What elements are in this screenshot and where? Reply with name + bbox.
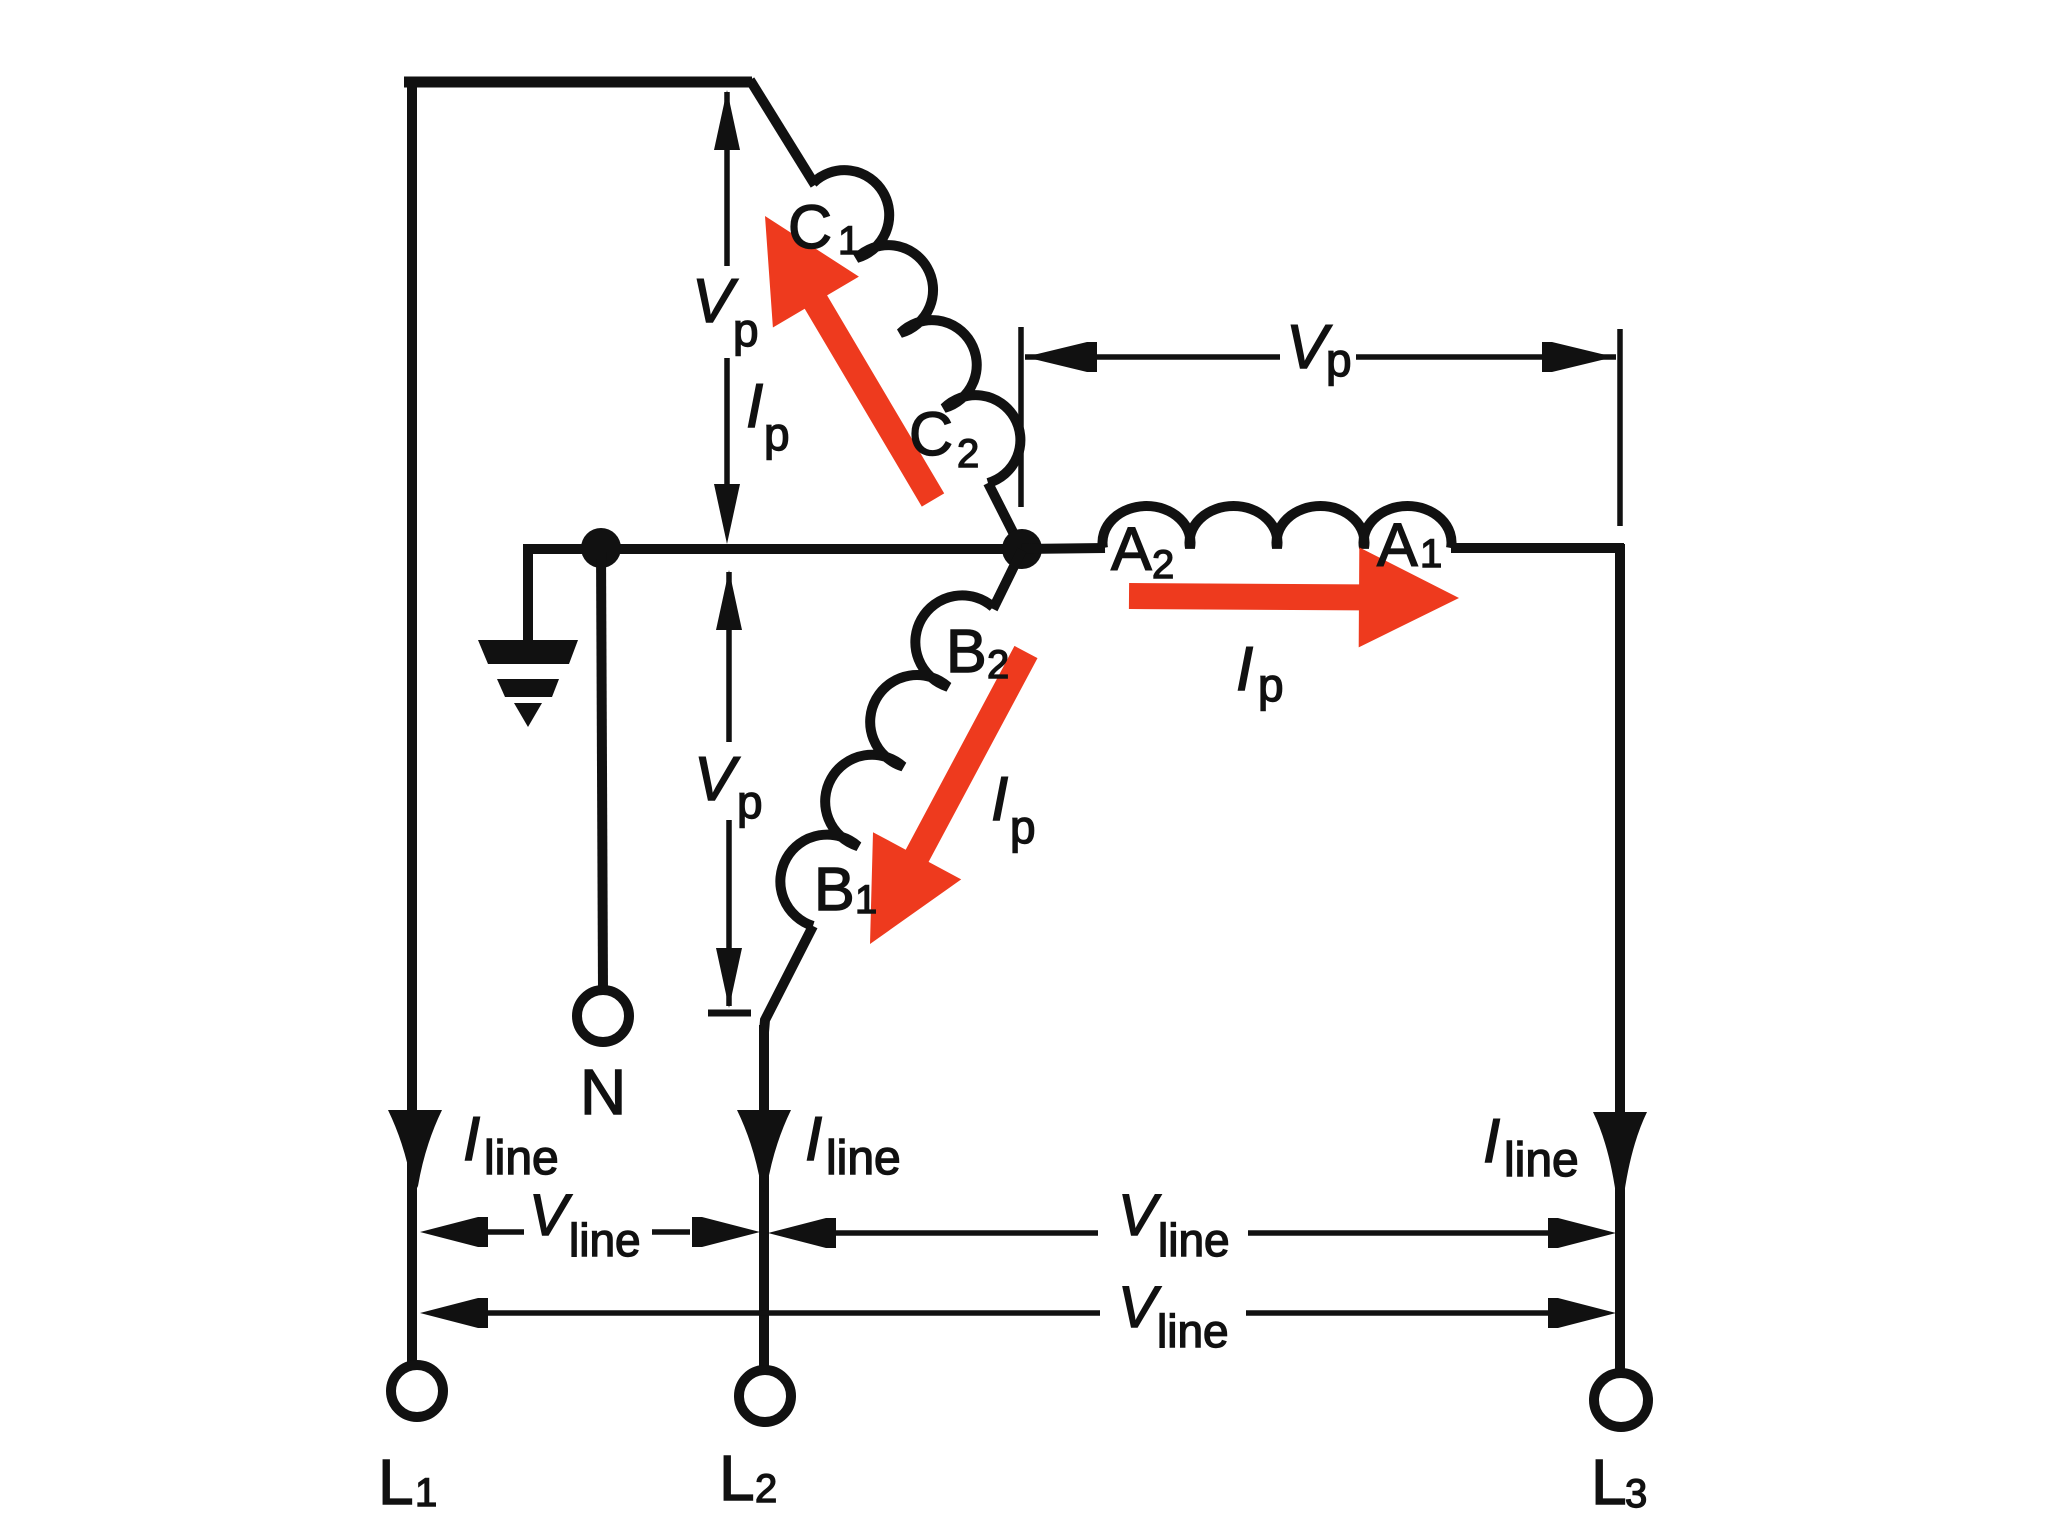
svg-text:B: B — [814, 855, 855, 923]
dimension Vp horizontal arrow left — [1025, 342, 1097, 372]
svg-text:A: A — [1111, 515, 1152, 583]
svg-text:p: p — [764, 408, 790, 460]
wire left vertical line L1 — [407, 77, 417, 1362]
wire A2 lead from node — [1022, 548, 1105, 549]
svg-text:p: p — [737, 776, 763, 828]
dimension Vp horizontal arrow right — [1542, 342, 1614, 372]
wire C2 to star node — [988, 483, 1022, 550]
ground symbol bar 3 triangle — [514, 703, 542, 727]
svg-text:C: C — [788, 193, 832, 261]
svg-text:L: L — [378, 1446, 414, 1518]
wire right vertical line L3 — [1615, 544, 1625, 1370]
wire A1 to right corner — [1451, 543, 1624, 553]
wire C1 lead diagonal — [750, 80, 815, 185]
dimension Vline L2-L3 arrow at L2 — [768, 1218, 836, 1248]
wire vertical line L2 — [759, 1025, 769, 1368]
dimension Vp upper arrow down — [714, 484, 740, 544]
dimension Vp lower end tick — [708, 1010, 751, 1017]
svg-text:p: p — [1010, 801, 1036, 853]
svg-text:2: 2 — [987, 643, 1009, 687]
dimension Vline L1-L2 arrow at L1 — [420, 1217, 488, 1247]
svg-text:V: V — [694, 745, 741, 814]
svg-text:1: 1 — [415, 1471, 437, 1515]
dimension Vline L2-L3 arrow at L3 — [1548, 1218, 1616, 1248]
ground symbol bar 2 — [497, 679, 559, 697]
svg-text:3: 3 — [1625, 1472, 1647, 1516]
dimension Vp lower line — [726, 572, 732, 1006]
svg-text:line: line — [826, 1132, 901, 1185]
dimension Vline L1-L3 line left — [488, 1310, 1100, 1316]
dimension Vline L2-L3 line right — [1248, 1230, 1556, 1236]
svg-text:p: p — [1326, 334, 1352, 386]
terminal L1 circle — [391, 1365, 443, 1417]
dimension Vline L1-L3 line right — [1246, 1310, 1556, 1316]
junction dot neutral — [581, 528, 621, 568]
svg-text:I: I — [1236, 635, 1253, 704]
red arrow phase C current — [765, 216, 944, 507]
terminal N circle — [577, 990, 629, 1042]
dimension Vp horizontal left tick — [1018, 327, 1024, 507]
wire junction to N terminal — [601, 548, 603, 991]
dimension Vp upper line — [724, 92, 730, 492]
svg-text:I: I — [805, 1105, 822, 1174]
dimension Vline L2-L3 line left — [836, 1230, 1098, 1236]
svg-text:2: 2 — [1152, 543, 1174, 587]
dimension Vp lower arrow down — [716, 948, 742, 1008]
wire top bus L1 to C-phase corner — [404, 77, 752, 88]
svg-text:p: p — [1258, 659, 1284, 711]
dimension Vline L1-L3 arrow at L3 — [1548, 1298, 1616, 1328]
svg-text:V: V — [1118, 1275, 1162, 1340]
svg-text:L: L — [719, 1442, 755, 1514]
svg-text:line: line — [1158, 1214, 1230, 1266]
ground symbol bar 1 — [478, 640, 578, 664]
dimension Vline L1-L2 arrow at L2 — [692, 1217, 760, 1247]
svg-text:N: N — [580, 1056, 626, 1128]
red arrow phase B current — [870, 646, 1038, 944]
svg-text:I: I — [1483, 1107, 1500, 1176]
svg-text:line: line — [1157, 1305, 1229, 1357]
dimension Vp upper arrow up — [714, 90, 740, 150]
wire neutral horizontal — [527, 544, 1022, 554]
dimension Vp horizontal line — [1025, 354, 1616, 360]
red arrow phase A current — [1129, 547, 1459, 647]
svg-text:p: p — [733, 304, 759, 356]
svg-text:1: 1 — [1420, 532, 1442, 576]
svg-text:line: line — [484, 1132, 559, 1185]
winding A (A2 left to A1 right) — [1103, 506, 1452, 548]
node star point junction — [1002, 529, 1042, 569]
svg-text:V: V — [529, 1183, 573, 1248]
wire ground stem — [528, 549, 532, 642]
svg-text:B: B — [946, 617, 987, 685]
svg-text:line: line — [569, 1214, 641, 1266]
wire B2 lead from node — [993, 550, 1022, 609]
dimension Vline L1-L2 line right — [652, 1229, 690, 1235]
arrow Iline L1 — [388, 1110, 442, 1192]
svg-text:I: I — [463, 1105, 480, 1174]
arrow Iline L3 — [1593, 1112, 1647, 1208]
svg-text:line: line — [1504, 1134, 1579, 1187]
winding B (B2 top to B1 bottom) — [780, 595, 993, 926]
svg-text:V: V — [1118, 1183, 1162, 1248]
svg-text:C: C — [909, 400, 953, 468]
dimension Vline L1-L2 line left — [488, 1229, 524, 1235]
svg-text:A: A — [1377, 511, 1418, 579]
dimension Vline L1-L3 arrow at L1 — [420, 1298, 488, 1328]
svg-text:1: 1 — [855, 878, 877, 922]
svg-text:2: 2 — [957, 432, 979, 476]
svg-text:2: 2 — [755, 1467, 777, 1511]
svg-text:I: I — [991, 765, 1008, 834]
arrow Iline L2 — [737, 1110, 791, 1192]
svg-text:V: V — [692, 267, 739, 336]
wire B1 lead diagonal — [764, 926, 813, 1032]
terminal L2 circle — [739, 1370, 791, 1422]
svg-text:L: L — [1591, 1446, 1627, 1518]
dimension Vp horizontal right tick — [1617, 329, 1623, 526]
dimension Vp lower arrow up — [716, 570, 742, 630]
winding C (C1 top to C2 bottom) — [813, 170, 1020, 483]
svg-text:I: I — [746, 372, 763, 441]
svg-text:1: 1 — [838, 219, 860, 263]
terminal L3 circle — [1594, 1373, 1648, 1427]
